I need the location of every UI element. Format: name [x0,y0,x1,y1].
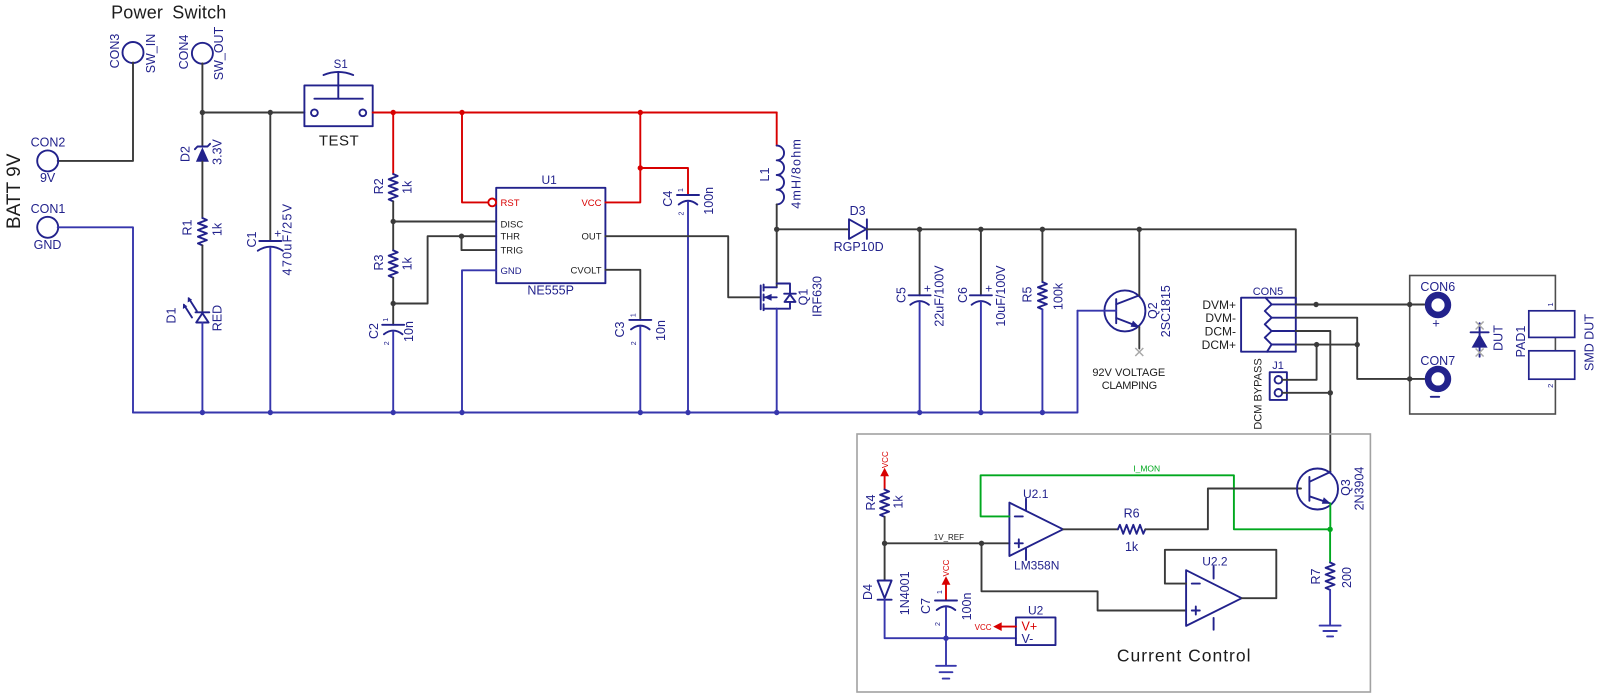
svg-text:100n: 100n [960,593,974,621]
IC U2 power V+/V- [1016,603,1056,646]
svg-text:10n: 10n [654,320,668,341]
svg-text:TEST: TEST [319,133,359,150]
svg-text:1: 1 [630,313,637,317]
svg-text:VCC: VCC [942,559,951,576]
svg-text:CON2: CON2 [31,136,66,150]
wire to R7 [1329,529,1331,562]
capacitor C5 22uF/100V [895,229,947,412]
junction gnd U1 [459,410,464,415]
svg-text:1: 1 [678,188,685,192]
wire stub CON7 [1410,378,1425,380]
resistor R7 200 [1309,563,1354,625]
wire U2.2 feedback loop [1165,550,1276,598]
svg-text:1: 1 [383,318,390,322]
ground bus blue [133,311,1078,413]
svg-text:VCC: VCC [581,198,601,209]
junction THR/TRIG/C2 node [391,301,396,306]
svg-text:THR: THR [501,232,521,243]
junction red VCC-555 [638,110,643,115]
junction gnd C2 [391,410,396,415]
svg-text:CON4: CON4 [177,35,191,70]
connector CON1 [31,202,66,252]
connector CON7 [1420,354,1455,397]
junction I_MON/R7 [1327,527,1332,532]
svg-text:C1: C1 [245,231,259,247]
resistor R6 1k [1118,507,1145,554]
diode D4 1N4001 [861,543,1016,638]
junction node C1 [268,110,273,115]
junction J1 pin2 [1328,390,1333,395]
svg-text:+: + [924,281,931,295]
junction DVM+ stub [1313,302,1318,307]
svg-text:GND: GND [34,238,62,252]
svg-text:1k: 1k [400,180,414,194]
inductor L1 4mH/8ohm [758,113,804,230]
capacitor C6 10uF/100V [956,229,1008,412]
wire RST red [462,113,488,203]
no-connect X DUT anode [1476,322,1484,330]
wire 1V_REF [885,542,1010,544]
wire Q3 emitter green [1329,503,1331,529]
svg-text:1k: 1k [892,495,906,509]
wire stub CON6 [1410,304,1425,306]
svg-text:CON5: CON5 [1253,286,1284,298]
svg-text:1k: 1k [400,256,414,270]
svg-text:J1: J1 [1272,360,1284,372]
connector CON5 [1202,286,1296,352]
svg-text:LM358N: LM358N [1014,558,1059,572]
svg-text:+: + [985,281,992,295]
svg-text:+: + [1432,316,1440,331]
junction DISC node [391,219,396,224]
wire DVM- to CON7 [1296,318,1410,379]
svg-text:L1: L1 [758,168,772,182]
svg-text:1V_REF: 1V_REF [934,533,964,542]
LED DUT [1471,323,1506,357]
wire to D3 [777,228,849,230]
resistor R2 1k [372,113,414,222]
jumper J1 DCM BYPASS [1253,358,1287,429]
resistor R3 1k [372,222,414,304]
connector CON3 [108,34,158,74]
svg-text:SW_OUT: SW_OUT [212,26,226,80]
wire node to switch S1 [202,112,304,114]
wire to U2.2 +input [982,543,1187,610]
Current Control box [857,434,1370,692]
power flag VCC at R4 [880,451,890,489]
svg-text:10n: 10n [402,321,416,342]
ground symbol under R7 [1320,626,1341,637]
wire DCM+ [1296,344,1357,346]
svg-text:C6: C6 [956,287,970,303]
svg-text:CON6: CON6 [1420,280,1455,294]
svg-text:U2.1: U2.1 [1023,487,1049,501]
svg-text:Q2: Q2 [1146,302,1160,319]
svg-text:Q1: Q1 [797,289,811,306]
svg-text:RED: RED [211,305,225,331]
svg-text:RST: RST [501,198,520,209]
junction CON7 [1407,376,1412,381]
wire CON4 down to node [201,63,203,112]
resistor R1 1k [181,218,225,312]
svg-text:TRIG: TRIG [501,246,524,257]
wire green I_MON loop [981,475,1331,529]
wire CON3 to CON2 [58,63,133,161]
svg-text:DUT: DUT [1492,325,1506,351]
junction gnd C6 [978,410,983,415]
DUT fixture box [1410,276,1556,415]
svg-text:C5: C5 [895,287,909,303]
svg-text:2: 2 [1546,384,1555,388]
op-amp U2.2 [1186,555,1242,630]
svg-text:R6: R6 [1124,507,1140,521]
junction red RST [459,110,464,115]
ground symbol under C7 [936,638,956,678]
svg-text:1k: 1k [1125,540,1139,554]
svg-text:1: 1 [1546,302,1555,306]
svg-text:U2.2: U2.2 [1202,555,1228,569]
svg-text:Power Switch: Power Switch [111,3,226,23]
svg-text:I_MON: I_MON [1133,464,1160,474]
svg-text:R7: R7 [1309,568,1323,584]
svg-text:S1: S1 [334,59,348,71]
diode D3 RGP10D [834,204,884,254]
wire DISC [393,221,496,223]
svg-text:C7: C7 [919,598,933,614]
svg-text:1N4001: 1N4001 [898,571,912,615]
svg-text:VCC: VCC [975,623,992,632]
junction 1V_REF at R4 [882,541,887,546]
zener diode D2 3.3V [179,113,225,219]
wire CVOLT to C3 [605,270,640,320]
transistor Q2 2SC1815 [1078,229,1174,348]
svg-text:BATT 9V: BATT 9V [4,153,25,229]
wire OUT to gate [605,236,759,297]
svg-text:DCM+: DCM+ [1202,338,1236,352]
wire R3 node to THR [393,236,496,303]
svg-text:SMD DUT: SMD DUT [1583,314,1597,371]
wire CON1 to ground bus [58,227,133,412]
svg-text:DCM BYPASS: DCM BYPASS [1253,358,1265,429]
label I_MON [1133,464,1160,474]
pin bubble RST [488,199,496,207]
wire TRIG to THR [462,236,497,250]
svg-text:2: 2 [384,341,391,345]
LED D1 RED [165,297,225,413]
svg-text:200: 200 [1340,567,1354,588]
svg-text:2SC1815: 2SC1815 [1159,285,1173,337]
op-amp U2.1 LM358N [1009,487,1063,573]
no-connect X DUT cathode [1476,349,1484,357]
svg-text:22uF/100V: 22uF/100V [933,265,947,327]
power flag VCC at C7 [942,559,952,600]
svg-text:9V: 9V [40,171,56,185]
svg-text:2: 2 [679,211,686,215]
capacitor C2 10n [367,304,416,413]
title Power Switch [111,3,226,23]
junction 1V_REF branch [979,541,984,546]
junction CON6 [1407,302,1412,307]
capacitor C4 100n [661,187,716,413]
no-connect X Q2 emitter [1135,348,1143,356]
svg-text:CVOLT: CVOLT [571,265,602,276]
svg-text:OUT: OUT [581,232,601,243]
junction gnd Q1 [774,410,779,415]
svg-text:GND: GND [501,266,522,277]
power flag VCC at U2 V+ [975,622,1016,632]
svg-text:CON3: CON3 [108,34,122,69]
svg-text:Q3: Q3 [1339,479,1353,496]
svg-text:1k: 1k [211,222,225,236]
svg-text:D2: D2 [179,146,193,162]
wire U2.1 out to R6 [1063,528,1118,530]
svg-text:DVM+: DVM+ [1202,298,1236,312]
junction C6 [978,227,983,232]
wire VCC red [605,113,640,203]
junction gnd C5 [917,410,922,415]
svg-text:100k: 100k [1052,282,1066,310]
svg-text:D3: D3 [850,204,866,218]
connector CON2 [31,136,66,186]
pad PAD1 pin2 [1529,351,1575,388]
svg-text:D4: D4 [861,584,875,600]
svg-text:R5: R5 [1021,286,1035,302]
svg-text:IRF630: IRF630 [811,276,825,317]
pad PAD1 pin1 [1529,302,1575,337]
svg-text:R2: R2 [372,178,386,194]
label SMD DUT [1583,314,1597,371]
svg-text:C2: C2 [367,323,381,339]
svg-text:U2: U2 [1028,603,1044,617]
junction C5 [917,227,922,232]
svg-text:VCC: VCC [881,451,890,468]
svg-text:C3: C3 [613,321,627,337]
svg-text:CON7: CON7 [1420,354,1455,368]
connector CON4 [177,26,226,80]
svg-text:NE555P: NE555P [527,284,574,298]
junction DCM+/J1 [1314,342,1319,347]
label 1V_REF [934,533,964,542]
svg-text:2: 2 [631,341,638,345]
connector CON6 [1420,280,1455,331]
wire DVM+ to CON6 [1296,304,1410,306]
label PAD1 [1514,326,1528,358]
svg-text:V-: V- [1022,632,1034,646]
wire R6 to Q3 base [1145,489,1301,530]
switch S1 TEST [304,59,372,150]
svg-text:100n: 100n [702,187,716,215]
junction gnd R5 [1040,410,1045,415]
wire J1 pin1 to DCM+ [1282,345,1316,380]
junction gnd D1 [200,410,205,415]
junction gnd C4 [685,410,690,415]
junction node CON4/D2/S1 [200,110,205,115]
capacitor C7 100n [919,590,974,638]
svg-text:PAD1: PAD1 [1514,326,1528,358]
wire red VCC bus from S1 to L1 [373,112,777,114]
svg-text:DISC: DISC [501,219,524,230]
junction red C4 branch [638,165,643,170]
svg-text:R3: R3 [372,254,386,270]
capacitor C1 470uF/25V [245,113,295,413]
junction Q2 collector [1137,227,1142,232]
wire DCM- down to Q3 collector [1296,331,1331,472]
junction R5 [1040,227,1045,232]
svg-text:DCM-: DCM- [1205,325,1236,339]
mosfet Q1 IRF630 [761,229,825,412]
svg-text:10uF/100V: 10uF/100V [994,265,1008,327]
note 92V VOLTAGE CLAMPING [1092,367,1165,392]
svg-text:R4: R4 [864,494,878,510]
svg-text:4mH/8ohm: 4mH/8ohm [790,138,804,209]
junction gnd C3 [638,410,643,415]
svg-text:D1: D1 [165,307,179,323]
junction DCM+/DVM- [1355,342,1360,347]
svg-text:R1: R1 [181,219,195,235]
IC U1 NE555P [496,173,605,298]
svg-text:CON1: CON1 [31,202,66,216]
svg-text:SW_IN: SW_IN [144,34,158,74]
svg-text:470uF/25V: 470uF/25V [281,203,295,276]
svg-text:2: 2 [935,622,942,626]
wire J1 pin2 to DCM- net [1282,392,1330,394]
label BATT 9V [4,153,25,229]
svg-text:C4: C4 [661,191,675,207]
resistor R4 1k [864,490,906,544]
resistor R5 100k [1021,229,1066,412]
svg-text:3.3V: 3.3V [211,138,225,164]
svg-text:U1: U1 [542,173,558,187]
svg-text:CLAMPING: CLAMPING [1102,380,1157,392]
svg-text:1: 1 [937,590,944,594]
junction red R2 [391,110,396,115]
junction C7 ground [943,636,948,641]
svg-text:Current Control: Current Control [1117,646,1252,666]
junction L1/Q1/D3 [774,227,779,232]
transistor Q3 2N3904 [1297,467,1367,511]
junction THR/TRIG [459,234,464,239]
label Current Control [1117,646,1252,666]
wire red to C4 [640,168,688,195]
wire output bus [867,229,1296,304]
svg-text:92V VOLTAGE: 92V VOLTAGE [1092,367,1165,379]
junction gnd C1 [268,410,273,415]
wire GND blue [462,270,496,412]
svg-text:2N3904: 2N3904 [1353,467,1367,511]
svg-text:RGP10D: RGP10D [834,240,884,254]
svg-text:DVM-: DVM- [1205,311,1236,325]
capacitor C3 10n [613,313,668,412]
